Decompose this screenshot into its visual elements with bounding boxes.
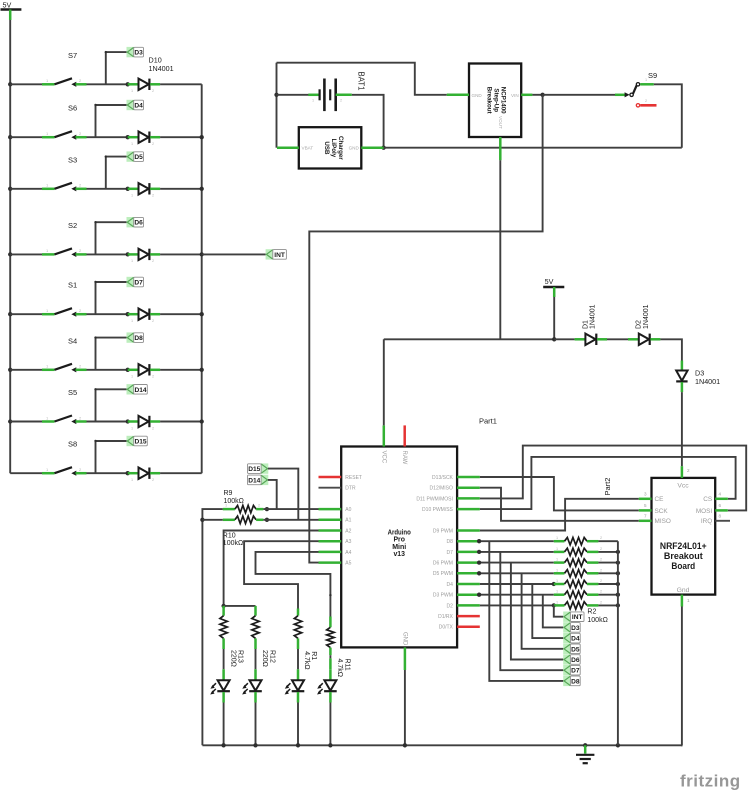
svg-text:1N4001: 1N4001 bbox=[149, 64, 174, 73]
switch S4 bbox=[42, 369, 55, 372]
node diode anode junction row S6 bbox=[126, 135, 130, 139]
node R9 right junction bbox=[265, 507, 269, 511]
switch S6 bbox=[42, 136, 55, 139]
svg-text:D7: D7 bbox=[571, 668, 580, 675]
node diode anode junction row S5 bbox=[126, 419, 130, 423]
pin RESET (Arduino) bbox=[319, 476, 342, 479]
node battery-/charger GND junction bbox=[381, 146, 385, 150]
svg-text:1: 1 bbox=[131, 426, 133, 430]
node gnd bus junction bbox=[616, 550, 620, 554]
svg-text:BAT1: BAT1 bbox=[357, 72, 366, 91]
net label D4 (switch S6) bbox=[127, 100, 134, 110]
LED at x=223.6 bbox=[222, 669, 225, 680]
wire D3 branch to connector bbox=[543, 595, 564, 628]
node gnd bus junction bbox=[616, 593, 620, 597]
svg-text:100kΩ: 100kΩ bbox=[223, 540, 243, 547]
node diode anode junction row S7 bbox=[126, 82, 130, 86]
diode D2 1N4001 bbox=[628, 338, 639, 341]
wire diode cathode to bus row S8 bbox=[160, 472, 202, 474]
svg-text:2: 2 bbox=[152, 142, 154, 146]
NRF24L01+ breakout box Part2 bbox=[652, 478, 716, 595]
wire VIN to S9 pole bbox=[543, 94, 615, 96]
svg-text:INT: INT bbox=[572, 614, 583, 621]
svg-text:NCP1400Step-UpBreakout: NCP1400Step-UpBreakout bbox=[486, 87, 507, 114]
pin D4 (Arduino) bbox=[457, 583, 480, 586]
pin SCK (NRF) bbox=[639, 509, 652, 512]
net label INT bbox=[266, 249, 273, 259]
node rail junction row S5 bbox=[8, 419, 12, 423]
node cathode bus junction bbox=[200, 252, 204, 256]
svg-text:MISO: MISO bbox=[655, 518, 671, 525]
resistor R12 220 bbox=[254, 606, 257, 616]
svg-text:1: 1 bbox=[131, 259, 133, 263]
svg-text:100kΩ: 100kΩ bbox=[587, 617, 607, 624]
node cathode bus junction bbox=[200, 135, 204, 139]
svg-text:S9: S9 bbox=[648, 71, 657, 80]
wire D8 row to resistor bbox=[480, 540, 554, 542]
svg-text:2: 2 bbox=[600, 590, 602, 594]
node cathode bus junction bbox=[200, 419, 204, 423]
net label D14 (to A0) bbox=[261, 475, 268, 485]
svg-text:VIN: VIN bbox=[511, 93, 519, 98]
pin D5 PWM (Arduino) bbox=[457, 572, 480, 575]
node R13/R12 top junction bbox=[221, 604, 225, 608]
pin CE (NRF) bbox=[639, 498, 652, 501]
svg-text:A0: A0 bbox=[345, 507, 351, 513]
wire D15 to A1 bbox=[268, 469, 298, 520]
svg-text:S1: S1 bbox=[68, 281, 77, 290]
node ground rail junction bbox=[583, 743, 587, 747]
svg-text:R10: R10 bbox=[223, 532, 236, 539]
net label D7 (switch S1) bbox=[127, 277, 134, 287]
svg-text:1: 1 bbox=[131, 194, 133, 198]
node cathode bus junction bbox=[200, 187, 204, 191]
resistor D2 pulldown R2 100k bbox=[554, 604, 565, 607]
pin MOSI (NRF) bbox=[715, 509, 728, 512]
svg-text:SCK: SCK bbox=[655, 508, 669, 515]
svg-text:D3: D3 bbox=[571, 625, 580, 632]
wire D6 row to resistor bbox=[480, 562, 554, 564]
wire D7 row to resistor bbox=[480, 551, 554, 553]
svg-text:2: 2 bbox=[645, 99, 647, 103]
svg-text:D6 PWM: D6 PWM bbox=[433, 561, 453, 567]
pin D12/MISO (Arduino) bbox=[457, 486, 480, 489]
wire A4 to R11 bbox=[256, 552, 331, 617]
svg-text:D2: D2 bbox=[446, 603, 453, 609]
wire R9 to A0 bbox=[263, 508, 318, 510]
wire 5V to D1 bbox=[554, 338, 574, 340]
resistor R1 4.7k bbox=[297, 609, 300, 616]
svg-text:1: 1 bbox=[131, 142, 133, 146]
svg-text:D4: D4 bbox=[571, 636, 580, 643]
svg-text:1: 1 bbox=[687, 598, 690, 603]
svg-text:S4: S4 bbox=[68, 336, 77, 345]
resistor D5 pulldown bbox=[554, 572, 565, 575]
wire diode cathode to bus row S1 bbox=[160, 313, 202, 315]
wire 5V horizontal line bbox=[384, 338, 554, 340]
svg-text:D3 PWM: D3 PWM bbox=[433, 593, 453, 599]
pin A2 (Arduino) bbox=[319, 529, 342, 532]
pin A1 (Arduino) bbox=[319, 519, 342, 522]
svg-text:Vcc: Vcc bbox=[677, 482, 689, 489]
svg-text:D15: D15 bbox=[248, 466, 260, 473]
net label D8 (connector stack) bbox=[563, 676, 570, 686]
svg-text:Part2: Part2 bbox=[603, 478, 612, 496]
svg-text:1: 1 bbox=[556, 600, 558, 604]
wire diode cathode to bus row S5 bbox=[160, 421, 202, 423]
svg-text:CE: CE bbox=[655, 496, 664, 503]
wire D14 to A0 bbox=[268, 480, 277, 509]
node ground rail junction bbox=[616, 743, 620, 747]
svg-text:D5 PWM: D5 PWM bbox=[433, 571, 453, 577]
pin CS (NRF) bbox=[715, 498, 728, 501]
svg-text:S8: S8 bbox=[68, 440, 77, 449]
wire step-up VIN lead bbox=[521, 94, 532, 97]
wire diode cathode to bus row S3 bbox=[160, 188, 202, 190]
pin A5 (Arduino) bbox=[319, 561, 342, 564]
step-up box NCP1400 bbox=[469, 64, 521, 138]
svg-text:S7: S7 bbox=[68, 51, 77, 60]
svg-text:6: 6 bbox=[719, 503, 722, 508]
svg-text:fritzing: fritzing bbox=[680, 772, 741, 791]
svg-text:2: 2 bbox=[258, 504, 260, 508]
wire D3 to NRF Vcc bbox=[681, 392, 683, 466]
svg-text:1: 1 bbox=[131, 375, 133, 379]
svg-text:2: 2 bbox=[687, 468, 690, 473]
wire diode cathode to bus row S2 bbox=[160, 253, 202, 255]
svg-text:D3: D3 bbox=[134, 50, 143, 57]
wire charger VBAT lead bbox=[277, 146, 299, 149]
net label D14 (switch S5) bbox=[127, 384, 134, 394]
wire rail to switch S3 bbox=[10, 188, 42, 190]
node gnd bus junction bbox=[616, 603, 620, 607]
svg-text:1: 1 bbox=[312, 99, 314, 103]
svg-text:Gnd: Gnd bbox=[677, 587, 690, 594]
wire D13/SCK to NRF SCK bbox=[480, 477, 639, 510]
svg-text:2: 2 bbox=[152, 194, 154, 198]
switch S3 bbox=[42, 188, 55, 191]
node D3 branch junction bbox=[477, 593, 481, 597]
wire switch S6 to diode bbox=[87, 136, 128, 138]
wire D8 resistor to gnd bus bbox=[598, 540, 618, 542]
wire D4 row to resistor bbox=[480, 583, 554, 585]
svg-text:2: 2 bbox=[152, 375, 154, 379]
svg-text:D12/MISO: D12/MISO bbox=[430, 486, 453, 492]
svg-text:D15: D15 bbox=[134, 439, 146, 446]
svg-text:MOSI: MOSI bbox=[696, 508, 713, 515]
svg-text:2: 2 bbox=[600, 600, 602, 604]
switch S5 bbox=[42, 420, 55, 423]
node cathode bus junction bbox=[200, 368, 204, 372]
svg-text:DTR: DTR bbox=[345, 486, 356, 492]
wire R10 to A1 bbox=[263, 519, 318, 521]
resistor D6 pulldown bbox=[554, 561, 565, 564]
node rail junction row S7 bbox=[8, 82, 12, 86]
svg-text:D14: D14 bbox=[134, 387, 146, 394]
switch S8 bbox=[42, 472, 55, 475]
wire 5V rail vertical bbox=[9, 20, 11, 473]
wire D7 resistor to gnd bus bbox=[598, 551, 618, 553]
net label D3 (switch S7) bbox=[127, 47, 134, 57]
LED at x=330.4 bbox=[329, 669, 332, 680]
node diode anode junction row S2 bbox=[126, 252, 130, 256]
net label D6 (connector stack) bbox=[563, 654, 570, 664]
wire rail to switch S6 bbox=[10, 136, 42, 138]
wire D4 branch to connector bbox=[532, 584, 563, 638]
pin Gnd (NRF) bbox=[681, 595, 684, 607]
node diode anode junction row S1 bbox=[126, 312, 130, 316]
svg-text:1: 1 bbox=[556, 579, 558, 583]
svg-text:1: 1 bbox=[131, 89, 133, 93]
net label D15 (to A1) bbox=[261, 463, 268, 473]
node rail junction row S2 bbox=[8, 252, 12, 256]
svg-text:D13/SCK: D13/SCK bbox=[432, 475, 454, 481]
svg-text:RAW: RAW bbox=[401, 451, 407, 465]
svg-text:D0/TX: D0/TX bbox=[439, 625, 454, 631]
svg-text:2: 2 bbox=[152, 426, 154, 430]
pin GND (Arduino) bbox=[404, 647, 407, 670]
svg-text:D9 PWM: D9 PWM bbox=[433, 528, 453, 534]
Arduino Pro Mini box Part1 bbox=[341, 447, 457, 648]
svg-text:D5: D5 bbox=[134, 154, 143, 161]
wire step-up GND lead bbox=[447, 94, 469, 97]
node ground rail junction bbox=[328, 743, 332, 747]
wire rail to switch S1 bbox=[10, 313, 42, 315]
wire charger GND to S9 loop bbox=[384, 147, 682, 149]
resistor D7 pulldown bbox=[554, 551, 565, 554]
pin D6 PWM (Arduino) bbox=[457, 561, 480, 564]
pin A4 (Arduino) bbox=[319, 551, 342, 554]
wire rail to switch S2 bbox=[10, 253, 42, 255]
wire D2 to D3 bbox=[660, 339, 682, 360]
svg-text:D4: D4 bbox=[134, 103, 143, 110]
wire bus to INT label bbox=[202, 253, 266, 255]
node gnd bus junction bbox=[616, 571, 620, 575]
node R10 right junction bbox=[265, 518, 269, 522]
wire rail to switch S7 bbox=[10, 83, 42, 85]
wire D2 resistor to gnd bus bbox=[598, 604, 618, 606]
svg-text:D8: D8 bbox=[571, 678, 580, 685]
svg-text:2: 2 bbox=[152, 259, 154, 263]
resistor D3 pulldown bbox=[554, 593, 565, 596]
svg-text:2: 2 bbox=[600, 536, 602, 540]
svg-text:2: 2 bbox=[600, 558, 602, 562]
wire D2 branch to connector bbox=[554, 605, 564, 616]
diode row S6 bbox=[128, 136, 139, 139]
net label D4 (connector stack) bbox=[563, 633, 570, 643]
svg-text:D8: D8 bbox=[446, 539, 453, 545]
pin IRQ (NRF, unconnected) bbox=[715, 520, 730, 522]
node ground rail junction bbox=[253, 743, 257, 747]
svg-text:3: 3 bbox=[644, 491, 647, 496]
node rail junction row S4 bbox=[8, 368, 12, 372]
wire stub to net label D8 bbox=[95, 338, 97, 370]
net label D8 (switch S4) bbox=[127, 332, 134, 342]
diode D1 1N4001 bbox=[575, 338, 586, 341]
svg-text:CS: CS bbox=[703, 496, 712, 503]
LED at x=255.5 bbox=[254, 669, 257, 680]
svg-text:D6: D6 bbox=[134, 220, 143, 227]
wire switch S3 to diode bbox=[87, 188, 128, 190]
svg-text:1: 1 bbox=[556, 568, 558, 572]
svg-text:A2: A2 bbox=[345, 528, 351, 534]
svg-text:R2: R2 bbox=[587, 609, 596, 616]
svg-text:2: 2 bbox=[340, 99, 342, 103]
net label D5 (switch S3) bbox=[127, 151, 134, 161]
svg-text:D7: D7 bbox=[134, 280, 143, 287]
wire Arduino GND down to rail bbox=[404, 670, 406, 745]
diode row S1 bbox=[128, 313, 139, 316]
svg-text:VOUT: VOUT bbox=[498, 116, 503, 129]
wire ground rail bbox=[202, 744, 682, 746]
svg-text:D11 PWM/MOSI: D11 PWM/MOSI bbox=[416, 496, 453, 502]
net label INT (connector stack) bbox=[563, 612, 570, 622]
wire D6 resistor to gnd bus bbox=[598, 562, 618, 564]
wire stub to net label D3 bbox=[105, 52, 107, 84]
wire diode cathode to bus row S6 bbox=[160, 136, 202, 138]
svg-text:A1: A1 bbox=[345, 518, 351, 524]
wire battery+ to charger VBAT bbox=[276, 63, 278, 148]
wire D10/SS to NRF CS bbox=[480, 457, 736, 509]
pin D1/RX (Arduino, unconnected) bbox=[457, 615, 480, 618]
node cathode bus junction bbox=[200, 312, 204, 316]
switch S1 bbox=[42, 313, 55, 316]
svg-text:S3: S3 bbox=[68, 155, 77, 164]
svg-text:A4: A4 bbox=[345, 550, 351, 556]
svg-text:D10 PWM/SS: D10 PWM/SS bbox=[422, 507, 454, 513]
wire D2 row to resistor bbox=[480, 604, 554, 606]
svg-text:A5: A5 bbox=[345, 561, 351, 567]
svg-text:S2: S2 bbox=[68, 221, 77, 230]
svg-text:A3: A3 bbox=[345, 539, 351, 545]
wire switch S4 to diode bbox=[87, 369, 128, 371]
pin RAW (Arduino, unconnected) bbox=[403, 425, 406, 446]
svg-text:RESET: RESET bbox=[345, 475, 362, 481]
wire A3 to R1 bbox=[244, 541, 318, 608]
net label D6 (switch S2) bbox=[127, 217, 134, 227]
resistor R11 4.7k bbox=[329, 617, 332, 628]
svg-text:2: 2 bbox=[152, 478, 154, 482]
pin VCC (Arduino) bbox=[383, 425, 386, 446]
wire D5 branch to connector bbox=[522, 573, 564, 649]
pin D2 (Arduino) bbox=[457, 604, 480, 607]
svg-text:5: 5 bbox=[644, 503, 647, 508]
wire VOUT down to 5V line bbox=[499, 160, 501, 339]
svg-text:R9: R9 bbox=[224, 490, 233, 497]
charger box USB LiPoly Charger bbox=[299, 127, 362, 168]
wire switch S7 to diode bbox=[87, 83, 128, 85]
switch S2 bbox=[42, 253, 55, 256]
node rail junction row S1 bbox=[8, 312, 12, 316]
pin D9 PWM (Arduino) bbox=[457, 529, 480, 532]
svg-text:5V: 5V bbox=[545, 277, 554, 286]
wire VIN down to A5 route bbox=[309, 95, 542, 563]
wire VCC up to 5V line bbox=[383, 339, 385, 425]
diode row S4 bbox=[128, 369, 139, 372]
wire switch S8 to diode bbox=[87, 472, 128, 474]
resistor R13 220 bbox=[222, 606, 225, 616]
svg-text:1: 1 bbox=[556, 547, 558, 551]
wire D12/MISO to NRF MISO bbox=[480, 488, 639, 521]
wire step-up VOUT lead bbox=[499, 137, 502, 160]
wire D1 to D2 bbox=[607, 338, 628, 340]
svg-text:VBAT: VBAT bbox=[302, 146, 314, 151]
svg-text:D8: D8 bbox=[134, 335, 143, 342]
svg-text:4: 4 bbox=[719, 491, 722, 496]
wire stub to net label D4 bbox=[95, 105, 97, 137]
svg-text:S5: S5 bbox=[68, 388, 77, 397]
svg-text:1N4001: 1N4001 bbox=[695, 377, 720, 386]
svg-text:1: 1 bbox=[131, 319, 133, 323]
svg-text:D6: D6 bbox=[571, 657, 580, 664]
wire switch S1 to diode bbox=[87, 313, 128, 315]
switch S7 bbox=[42, 83, 55, 86]
wire D8 branch to connector bbox=[489, 541, 563, 681]
wire stub to net label D6 bbox=[95, 222, 97, 254]
svg-text:D4: D4 bbox=[446, 582, 453, 588]
svg-text:2: 2 bbox=[600, 568, 602, 572]
svg-text:D1/RX: D1/RX bbox=[438, 614, 453, 620]
wire battery+ top loop bbox=[277, 63, 447, 95]
svg-text:7: 7 bbox=[644, 513, 647, 518]
svg-text:5V: 5V bbox=[3, 1, 12, 10]
pin Vcc (NRF) bbox=[681, 466, 684, 478]
resistor D4 pulldown bbox=[554, 583, 565, 586]
node 5V junction bbox=[552, 337, 556, 341]
svg-text:1: 1 bbox=[645, 78, 647, 82]
svg-text:GND: GND bbox=[401, 632, 407, 646]
battery BAT1 bbox=[277, 94, 320, 96]
svg-text:1: 1 bbox=[556, 536, 558, 540]
svg-text:8: 8 bbox=[719, 513, 722, 518]
wire A2 to R13/R12 bbox=[224, 531, 319, 606]
node rail junction row S3 bbox=[8, 187, 12, 191]
net label D7 (connector stack) bbox=[563, 665, 570, 675]
svg-text:VCC: VCC bbox=[380, 451, 386, 464]
wire rail to switch S4 bbox=[10, 369, 42, 371]
wire S9 throw to loop bbox=[654, 84, 682, 147]
diode row S2 bbox=[128, 253, 139, 256]
wire R10 left bbox=[202, 519, 222, 521]
node VIN junction bbox=[540, 93, 544, 97]
svg-text:GND: GND bbox=[349, 146, 360, 151]
node ground rail junction bbox=[221, 743, 225, 747]
diode row S8 bbox=[128, 472, 139, 475]
pin D7 (Arduino) bbox=[457, 551, 480, 554]
node rail junction row S6 bbox=[8, 135, 12, 139]
node ground rail junction bbox=[296, 743, 300, 747]
wire diode cathode to bus row S7 bbox=[160, 83, 202, 85]
svg-text:2: 2 bbox=[152, 89, 154, 93]
wire stub to net label D7 bbox=[95, 282, 97, 314]
wire stub to net label D14 bbox=[95, 389, 97, 421]
wire pulldown gnd bus vertical bbox=[617, 541, 619, 745]
wire D5 resistor to gnd bus bbox=[598, 572, 618, 574]
svg-text:GND: GND bbox=[472, 93, 483, 98]
pin D10 PWM/SS (Arduino) bbox=[457, 508, 480, 511]
diode row S5 bbox=[128, 420, 139, 423]
wire D3 resistor to gnd bus bbox=[598, 594, 618, 596]
node R10 left junction bbox=[200, 518, 204, 522]
pin D8 (Arduino) bbox=[457, 540, 480, 543]
diode row S3 bbox=[128, 188, 139, 191]
wire switch S5 to diode bbox=[87, 421, 128, 423]
pin D3 PWM (Arduino) bbox=[457, 593, 480, 596]
wire D4 resistor to gnd bus bbox=[598, 583, 618, 585]
node D6 branch junction bbox=[477, 560, 481, 564]
svg-text:D7: D7 bbox=[446, 550, 453, 556]
ground symbol bbox=[584, 745, 587, 753]
